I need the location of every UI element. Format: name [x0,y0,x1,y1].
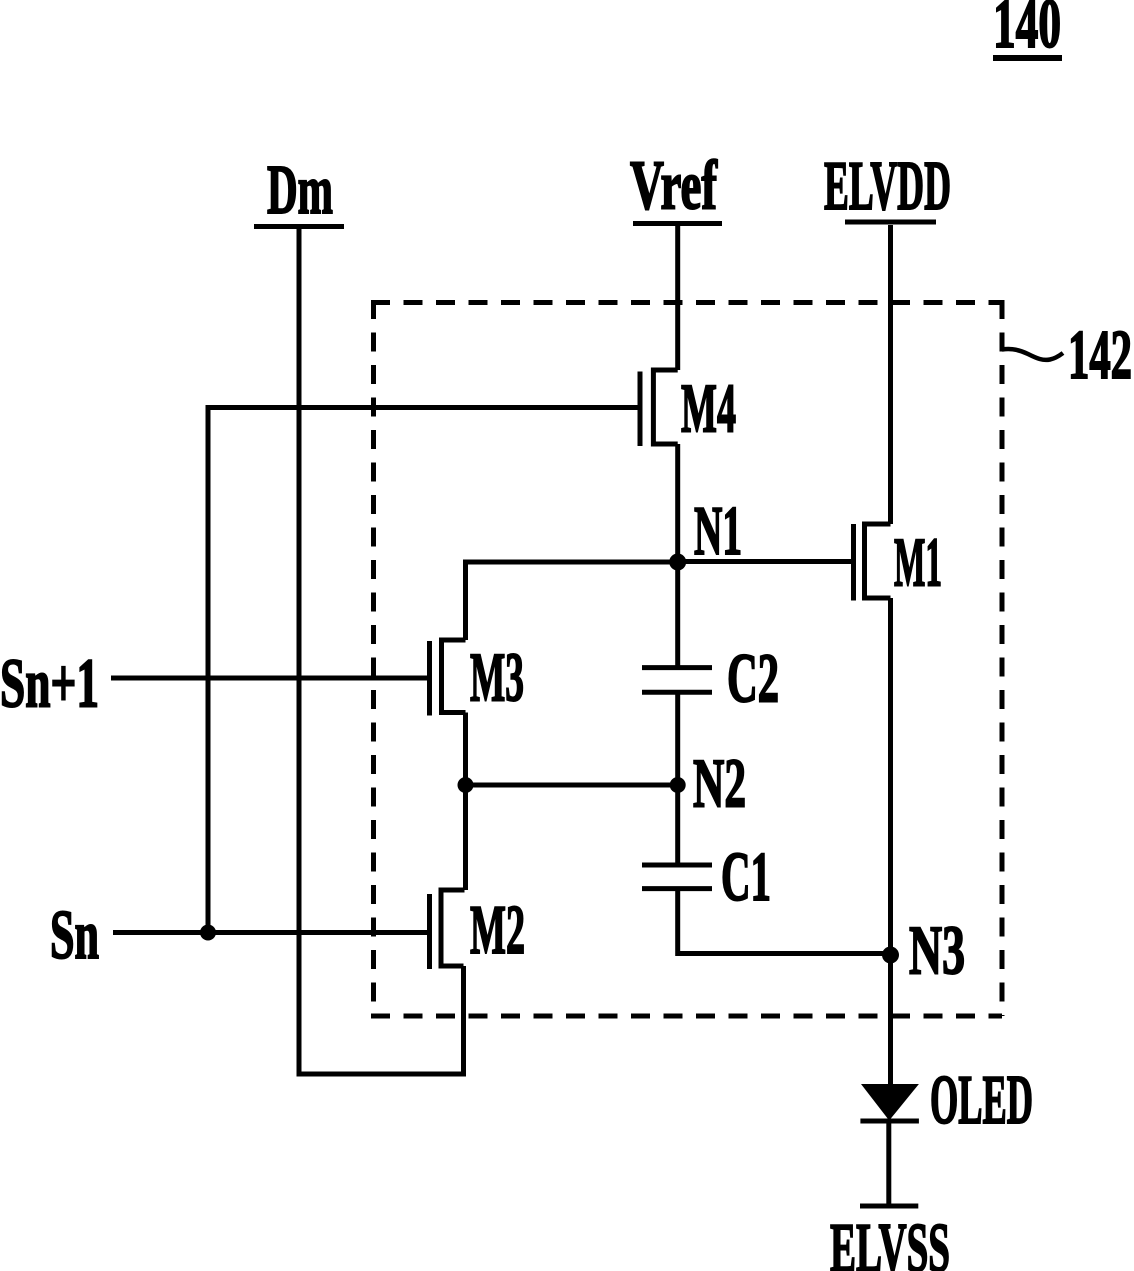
transistor M2 body [441,890,465,966]
svg-text:N1: N1 [694,493,742,570]
svg-text:M2: M2 [470,892,525,969]
wire C2 bottom to N2 [675,692,680,785]
wire C1 bottom to N3 [678,889,891,954]
wire ELVDD to M1 drain [888,225,893,524]
dashed box 142 top edge [371,300,1002,305]
terminal Dm underline [254,224,344,229]
node junction at M3 source / N2 left [458,777,474,793]
wire Vref to M4 drain [675,226,680,370]
terminal ELVDD underline [845,220,936,225]
svg-text:M4: M4 [681,371,736,448]
terminal ELVSS bar [860,1204,918,1209]
wire M3 source to M2 drain [463,713,468,891]
dashed box 142 left edge [371,300,376,1016]
svg-text:M1: M1 [894,525,942,602]
wire N2 horizontal [466,783,678,788]
transistor M4 body [653,370,677,444]
wire OLED cathode to ELVSS [886,1123,891,1206]
svg-text:142: 142 [1068,317,1132,394]
wire Dm to M2 source (bottom horizontal) [297,1072,467,1077]
svg-text:N3: N3 [909,913,965,990]
svg-text:C2: C2 [727,641,779,718]
capacitor C2 bottom plate [642,690,712,695]
transistor M1 body [865,524,891,598]
svg-text:Sn: Sn [50,897,99,974]
transistor M3 body [442,640,466,713]
wire Sn to M2 gate [113,930,430,935]
svg-text:Dm: Dm [267,152,333,229]
transistor M3 gate bar [427,641,432,716]
wire N1 to C2 top [675,562,680,668]
node junction Sn feed [200,925,216,941]
wire M4 source to N1 [675,444,680,562]
svg-text:N2: N2 [693,746,746,823]
svg-text:ELVDD: ELVDD [824,148,951,225]
svg-text:OLED: OLED [930,1062,1033,1139]
dashed box 142 bottom edge [371,1014,1002,1019]
node N2 [670,777,686,793]
wire N1 to M3 drain [466,562,678,640]
wire Dm vertical [297,229,302,1077]
capacitor C2 top plate [642,665,712,670]
terminal Vref underline [633,221,722,226]
leader squiggle to 142 [1002,349,1063,360]
capacitor C1 bottom plate [642,886,712,891]
transistor M2 gate bar [427,894,432,969]
svg-text:M3: M3 [470,640,524,717]
underline of 140 [993,55,1062,61]
diode OLED cathode bar [860,1119,919,1124]
svg-text:ELVSS: ELVSS [830,1210,950,1271]
wire N3 to OLED anode [888,955,893,1085]
wire N2 to C1 top [675,785,680,865]
svg-text:Vref: Vref [630,148,717,225]
node N3 [882,947,899,964]
node N1 [669,554,686,571]
wire Sn+1 to M3 gate [111,676,430,681]
diode OLED triangle [861,1084,919,1121]
capacitor C1 top plate [642,863,712,868]
wire N1 to M1 gate [678,559,854,564]
svg-text:C1: C1 [721,839,771,916]
transistor M4 gate bar [638,372,643,447]
dashed box 142 right edge [1000,300,1005,1016]
wire M4 gate feed (to Sn node) [208,408,640,933]
wire M1 source to N3 [888,598,893,955]
svg-text:Sn+1: Sn+1 [0,646,99,723]
svg-text:140: 140 [993,0,1061,63]
wire M2 source down [461,966,466,1077]
transistor M1 gate bar [851,524,856,601]
